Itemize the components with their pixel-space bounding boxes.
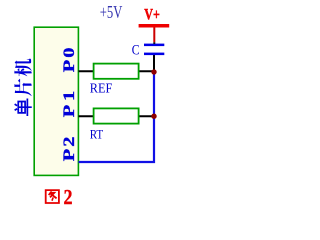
svg-text:V+: V+	[144, 6, 160, 23]
svg-text:P1: P1	[60, 91, 77, 117]
power port V+ bar	[139, 24, 170, 28]
svg-text:C: C	[132, 43, 140, 59]
svg-text:P0: P0	[60, 48, 77, 73]
microcontroller box U1	[34, 27, 78, 175]
svg-text:RT: RT	[90, 127, 104, 141]
capacitor C lead (top, red)	[153, 28, 155, 43]
label 单片机 char 机	[14, 59, 31, 77]
capacitor C lead (bottom, black)	[153, 55, 155, 72]
svg-text:2: 2	[64, 185, 73, 209]
wire P1 row	[79, 115, 155, 117]
svg-text:REF: REF	[90, 82, 113, 97]
wire P0 row	[79, 70, 155, 72]
capacitor C plates	[144, 44, 164, 47]
wire P2 net (blue)	[79, 72, 155, 162]
junction node at RT	[151, 114, 156, 119]
svg-text:P2: P2	[60, 137, 77, 162]
svg-text:+5V: +5V	[100, 2, 123, 22]
resistor REF	[94, 64, 139, 79]
resistor RT	[94, 108, 139, 123]
caption char 图	[46, 190, 59, 203]
junction node at REF/C	[151, 69, 156, 74]
label 单片机 char 片	[14, 79, 31, 96]
label 单片机 char 单	[15, 98, 32, 115]
